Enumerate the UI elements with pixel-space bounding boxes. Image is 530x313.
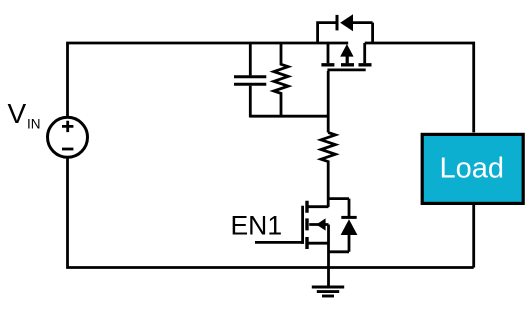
- wire: Q2 source to ground: [327, 225, 330, 288]
- diode D2 (NMOS body diode): [329, 199, 357, 252]
- transistor Q1 (PMOS): [321, 43, 371, 70]
- resistor R1 (gate pull-up): [274, 43, 288, 118]
- svg-text:EN1: EN1: [231, 210, 283, 240]
- ground: [312, 287, 344, 296]
- transistor Q2 (NMOS): [303, 201, 329, 249]
- wire: VIN bottom lead and bottom rail: [68, 157, 474, 268]
- capacitor C1 top lead: [249, 43, 252, 75]
- resistor R2 (gate divider): [321, 133, 335, 208]
- capacitor C1 bottom lead: [249, 86, 252, 118]
- svg-text:Load: Load: [440, 153, 505, 185]
- wire: EN1 gate lead: [255, 241, 303, 244]
- wire: VIN top lead and top rail to PMOS left terminal: [68, 43, 349, 118]
- label VIN: [8, 98, 41, 132]
- wire: top rail right to Load: [365, 43, 474, 132]
- capacitor C1 plates: [234, 77, 266, 85]
- wire: Load bottom lead: [472, 205, 475, 268]
- wire: RC bottom to gate node: [250, 115, 328, 118]
- load block: [422, 134, 523, 203]
- diode D1 (PMOS body diode): [318, 15, 373, 43]
- wire: Q1 gate lead down to node: [327, 71, 330, 133]
- svg-text:IN: IN: [27, 117, 41, 132]
- svg-text:V: V: [8, 98, 27, 129]
- voltage source VIN: [48, 117, 88, 157]
